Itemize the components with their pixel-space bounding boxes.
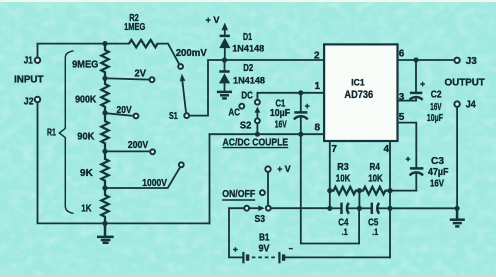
svg-text:90K: 90K [77, 131, 95, 142]
wire COM riser to battery minus line [301, 134, 359, 243]
switch S1 pole [184, 113, 189, 118]
svg-text:S3: S3 [255, 214, 266, 225]
wire S3 throw to supply line [272, 207, 330, 209]
svg-text:D1: D1 [243, 32, 252, 43]
ground at divider bottom [97, 223, 114, 242]
resistor R1e 1K [101, 188, 108, 223]
svg-text:J1: J1 [24, 55, 33, 66]
svg-text:2: 2 [314, 50, 320, 61]
wire supply line to ground [390, 207, 457, 209]
terminal 20V [134, 114, 139, 119]
svg-text:S2: S2 [240, 121, 252, 132]
label C1 polarity [305, 104, 310, 109]
terminal 200V [150, 149, 155, 154]
switch S3 pole [244, 206, 249, 211]
connector J2 [35, 97, 40, 102]
svg-text:200V: 200V [128, 140, 149, 151]
wire mid node down [358, 191, 360, 209]
svg-text:10µF: 10µF [427, 113, 443, 124]
resistor R3 [330, 187, 360, 194]
svg-text:1N4148: 1N4148 [233, 76, 266, 87]
wire IC pin 3 to C2 [398, 100, 417, 102]
svg-text:INPUT: INPUT [14, 74, 44, 85]
wire battery minus to pin 4 line [285, 256, 390, 258]
wire +V to S3 [267, 172, 269, 205]
switch S3 arm arrow [250, 207, 258, 209]
wire S2 pole to bus [256, 124, 258, 134]
svg-text:20V: 20V [117, 105, 132, 116]
svg-text:16V: 16V [275, 119, 287, 130]
svg-text:9MEG: 9MEG [72, 60, 99, 71]
label C2 polarity [420, 82, 425, 87]
wire J1 to top node [38, 44, 106, 57]
node C1 bottom [298, 132, 303, 137]
wire IC pin 4 down [389, 141, 391, 257]
connector J1 [35, 58, 40, 63]
svg-text:1: 1 [315, 81, 321, 92]
capacitor C2 [415, 60, 417, 92]
resistor R1a 9MEG [101, 44, 108, 78]
switch S3 throw off [260, 190, 265, 195]
wire J4 to ground line [456, 107, 458, 208]
switch S2 pole [255, 118, 260, 123]
label C3 polarity [406, 157, 411, 162]
svg-text:1MEG: 1MEG [124, 22, 145, 33]
svg-text:C3: C3 [431, 156, 444, 167]
node C1 top [298, 90, 303, 95]
wire 2V tap [105, 78, 149, 79]
wire coupling bus riser [209, 134, 211, 223]
terminal 1000V [179, 162, 184, 167]
svg-text:1000V: 1000V [142, 178, 167, 189]
svg-text:+ V: + V [206, 15, 220, 25]
svg-text:4: 4 [384, 144, 390, 155]
svg-text:+ V: + V [277, 164, 291, 174]
svg-text:5: 5 [399, 112, 405, 123]
node R4 right [387, 188, 392, 193]
svg-text:.1: .1 [372, 227, 378, 237]
label battery plus [233, 247, 238, 252]
node C4 C5 mid [357, 206, 362, 211]
switch S3 throw on [266, 206, 271, 211]
wire 200V tap [105, 150, 149, 152]
svg-text:.1: .1 [342, 227, 348, 237]
resistor R1d 9K [101, 151, 108, 188]
node 200V tap [102, 149, 107, 154]
svg-text:47µF: 47µF [428, 167, 449, 178]
wire IC pin 7 down [329, 141, 331, 208]
svg-text:900K: 900K [75, 95, 97, 106]
svg-text:C2: C2 [431, 90, 442, 101]
power +V at S3 [265, 166, 270, 171]
wire C3 to pin 4 line [390, 190, 416, 192]
wire 20V tap [105, 113, 133, 116]
IC1 AD736 body [324, 44, 397, 141]
wire 1000V tap [105, 168, 180, 188]
svg-text:R1: R1 [47, 128, 56, 139]
svg-text:D2: D2 [243, 63, 253, 74]
wire IC pin 6 to J3 [398, 59, 454, 61]
svg-text:R4: R4 [370, 162, 381, 173]
svg-text:ON/OFF: ON/OFF [222, 189, 255, 200]
switch S2 throw DC [255, 100, 260, 105]
capacitor C1 [300, 93, 302, 111]
resistor R2 [129, 40, 158, 47]
switch S1 arm [182, 81, 186, 112]
node output C2 [413, 57, 418, 62]
connector J4 [454, 101, 459, 106]
svg-text:1K: 1K [81, 203, 92, 214]
svg-text:1N4148: 1N4148 [232, 44, 265, 55]
svg-text:J4: J4 [466, 100, 476, 111]
capacitor C5 [359, 207, 370, 209]
node D1 D2 junction [222, 57, 227, 62]
svg-text:16V: 16V [430, 102, 442, 113]
wire top node to R2 [105, 43, 129, 45]
svg-text:10K: 10K [336, 173, 351, 184]
node R3 R4 mid [357, 188, 362, 193]
svg-text:10K: 10K [368, 173, 383, 184]
battery B1 [242, 252, 244, 263]
svg-text:OUTPUT: OUTPUT [445, 78, 485, 89]
label battery minus [289, 248, 293, 250]
svg-text:9V: 9V [259, 243, 270, 254]
node S2 on bus [255, 132, 260, 137]
wire S1 pole to IC pin 2 [190, 60, 324, 116]
wire D2 to ground [224, 83, 226, 91]
resistor R1c 90K [101, 113, 108, 151]
node 1000V tap [102, 185, 107, 190]
switch S2 arm arrow [256, 112, 258, 118]
svg-text:B1: B1 [259, 233, 270, 244]
terminal 2V [150, 77, 155, 82]
svg-text:S1: S1 [169, 111, 178, 122]
svg-text:AC: AC [229, 107, 240, 118]
connector J3 [454, 58, 459, 63]
svg-text:200mV: 200mV [176, 48, 207, 59]
svg-text:6: 6 [399, 49, 405, 60]
svg-text:2V: 2V [135, 69, 147, 80]
resistor R4 [359, 187, 390, 194]
node ground junction [455, 206, 460, 211]
node C5 right [387, 206, 392, 211]
wire S3 pole to battery plus [229, 208, 244, 257]
diode D2 [224, 60, 226, 71]
svg-text:8: 8 [315, 122, 321, 133]
node 2V tap [102, 76, 107, 81]
node divider bottom [102, 221, 107, 226]
ground right [450, 208, 465, 226]
capacitor C4 [330, 207, 340, 209]
capacitor C3 [410, 167, 424, 170]
node 20V tap [102, 110, 107, 115]
wire DC throw to IC pin 1 [257, 93, 324, 99]
ground below D2 [217, 92, 232, 99]
wire J2 to bottom bus [38, 103, 210, 224]
node top of divider [102, 41, 107, 46]
svg-text:J2: J2 [24, 96, 34, 107]
switch S2 throw AC [239, 104, 244, 109]
svg-text:AC/DC COUPLE: AC/DC COUPLE [223, 137, 289, 148]
svg-text:IC1: IC1 [351, 77, 365, 88]
svg-text:16V: 16V [430, 179, 444, 190]
node R3 left [327, 188, 332, 193]
wire R2 to 200mV contact [158, 44, 179, 64]
resistor R1b 900K [101, 78, 108, 113]
wire D1 to junction [224, 48, 226, 60]
node C4 left [327, 206, 332, 211]
svg-text:DC: DC [241, 91, 252, 102]
svg-text:7: 7 [331, 144, 337, 155]
svg-text:AD736: AD736 [344, 89, 373, 101]
wire bus to IC pin 8 [210, 133, 325, 135]
diode D1 [220, 35, 230, 38]
wire IC pin 5 to C3 [398, 123, 417, 167]
brace R1 [59, 51, 73, 214]
terminal 200mV [178, 64, 183, 69]
svg-text:9K: 9K [80, 168, 94, 179]
svg-text:10µF: 10µF [270, 108, 290, 119]
svg-text:J3: J3 [466, 56, 477, 67]
svg-text:R3: R3 [337, 162, 349, 173]
